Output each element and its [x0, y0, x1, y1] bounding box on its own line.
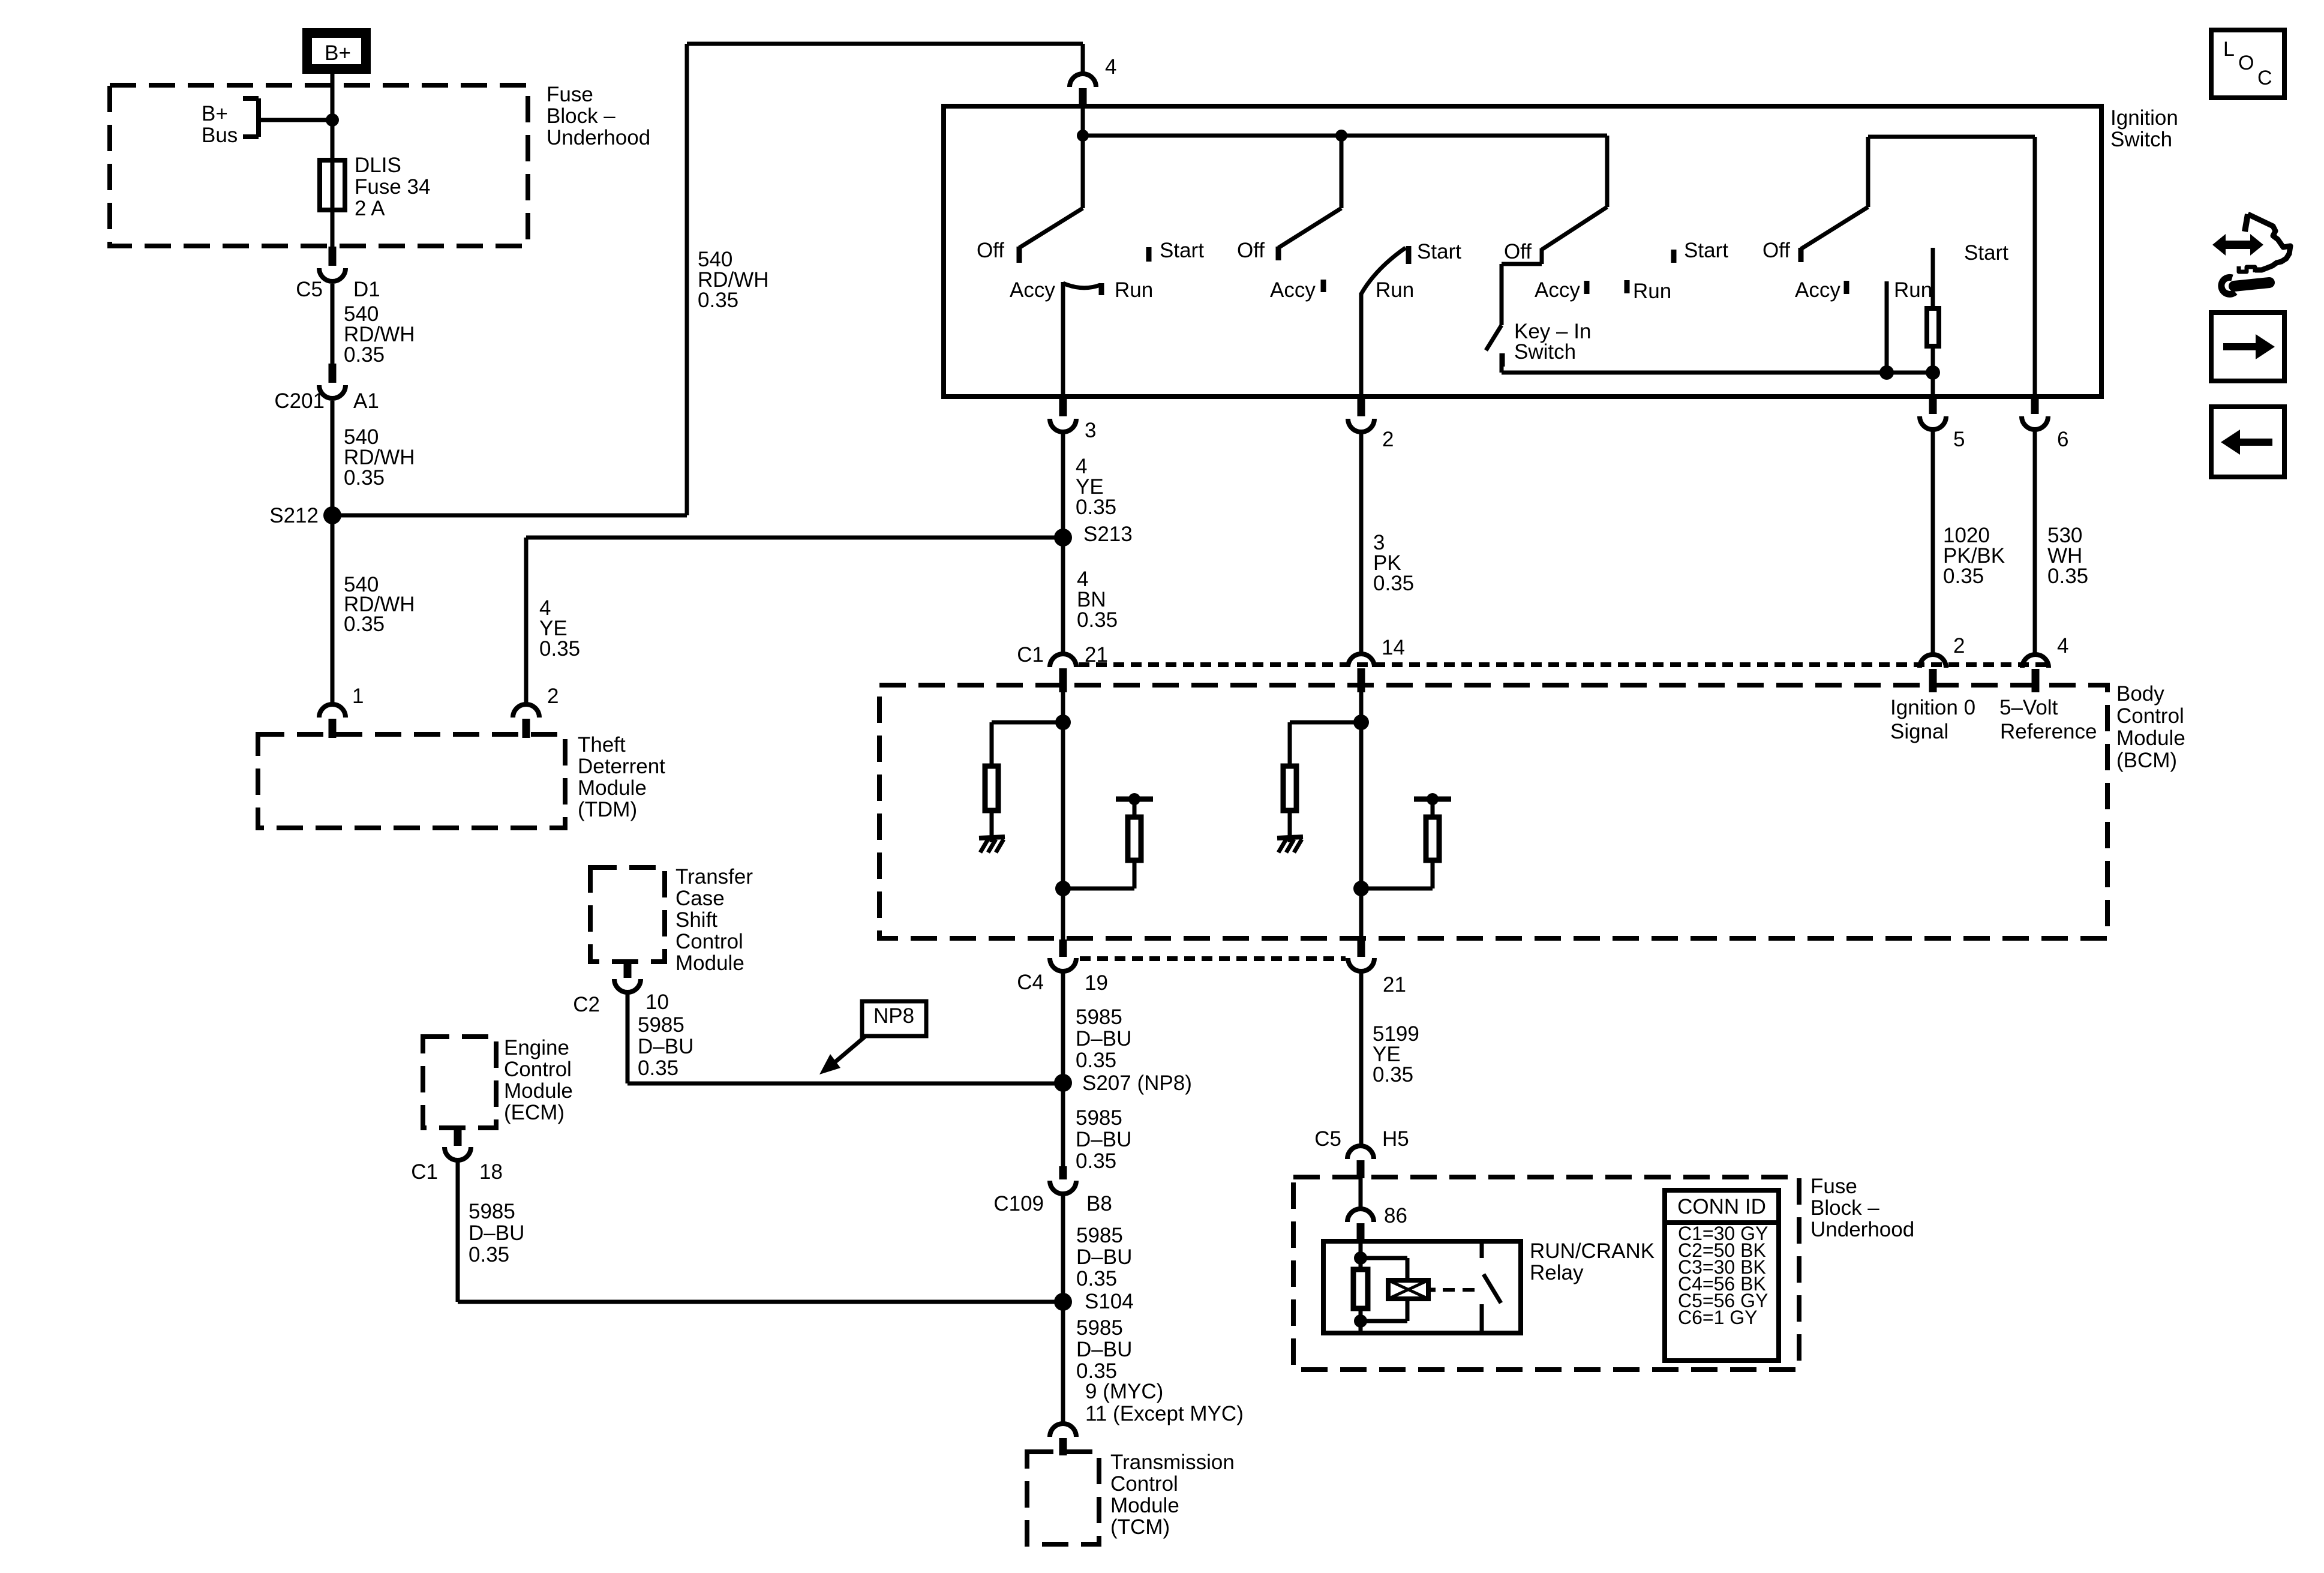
svg-text:B+: B+: [325, 41, 351, 65]
svg-text:Bus: Bus: [202, 124, 238, 147]
svg-text:Off: Off: [977, 239, 1004, 262]
svg-text:Switch: Switch: [1514, 340, 1576, 364]
svg-text:3: 3: [1085, 419, 1096, 442]
svg-text:Fuse: Fuse: [547, 83, 593, 106]
svg-text:Block –: Block –: [1810, 1196, 1879, 1220]
svg-text:S104: S104: [1085, 1290, 1134, 1313]
svg-text:0.35: 0.35: [698, 289, 738, 312]
svg-text:C: C: [2257, 67, 2272, 89]
svg-text:NP8: NP8: [873, 1004, 914, 1028]
svg-text:Control: Control: [504, 1058, 572, 1081]
svg-text:Off: Off: [1504, 240, 1532, 263]
svg-text:L: L: [2223, 38, 2235, 61]
svg-text:0.35: 0.35: [344, 466, 385, 490]
svg-text:1: 1: [352, 685, 364, 708]
svg-text:D–BU: D–BU: [638, 1035, 693, 1058]
svg-text:O: O: [2238, 52, 2254, 74]
svg-text:Fuse 34: Fuse 34: [355, 175, 430, 199]
svg-text:(TDM): (TDM): [578, 798, 637, 821]
svg-text:B+: B+: [202, 102, 228, 125]
svg-text:0.35: 0.35: [1076, 1049, 1116, 1072]
svg-text:10: 10: [645, 990, 669, 1014]
svg-text:5985: 5985: [1076, 1224, 1123, 1247]
svg-text:S213: S213: [1083, 523, 1133, 546]
svg-text:Control: Control: [675, 930, 743, 953]
svg-text:(BCM): (BCM): [2116, 749, 2177, 772]
svg-text:5985: 5985: [638, 1013, 684, 1037]
svg-text:Switch: Switch: [2110, 128, 2172, 151]
svg-text:9 (MYC): 9 (MYC): [1085, 1380, 1163, 1403]
svg-text:6: 6: [2057, 428, 2068, 451]
svg-text:S207 (NP8): S207 (NP8): [1082, 1071, 1192, 1095]
svg-text:A1: A1: [353, 389, 379, 413]
svg-text:CONN ID: CONN ID: [1677, 1195, 1766, 1218]
svg-text:RUN/CRANK: RUN/CRANK: [1530, 1239, 1655, 1263]
svg-text:Off: Off: [1237, 239, 1265, 262]
svg-text:Module: Module: [504, 1079, 573, 1103]
svg-text:D–BU: D–BU: [469, 1221, 524, 1245]
svg-text:11 (Except MYC): 11 (Except MYC): [1085, 1402, 1244, 1425]
svg-text:0.35: 0.35: [638, 1056, 678, 1080]
svg-text:C201: C201: [274, 389, 325, 413]
svg-text:Transmission: Transmission: [1110, 1451, 1235, 1474]
svg-text:0.35: 0.35: [1373, 572, 1414, 595]
svg-text:19: 19: [1085, 971, 1108, 995]
svg-text:0.35: 0.35: [344, 343, 385, 367]
svg-text:5–Volt: 5–Volt: [1999, 696, 2058, 719]
svg-text:0.35: 0.35: [1076, 1149, 1116, 1173]
svg-text:Accy: Accy: [1795, 278, 1840, 302]
svg-text:5985: 5985: [469, 1200, 515, 1223]
svg-text:Run: Run: [1376, 278, 1414, 302]
svg-text:2 A: 2 A: [355, 197, 385, 220]
svg-text:Start: Start: [1684, 239, 1728, 262]
svg-text:Module: Module: [2116, 727, 2185, 750]
svg-text:C109: C109: [993, 1192, 1044, 1215]
svg-text:Off: Off: [1762, 239, 1790, 262]
svg-text:(TCM): (TCM): [1110, 1515, 1170, 1539]
svg-text:0.35: 0.35: [1076, 1267, 1117, 1290]
svg-text:86: 86: [1384, 1204, 1407, 1227]
svg-text:C2: C2: [573, 993, 600, 1016]
svg-text:18: 18: [479, 1160, 503, 1184]
svg-text:Start: Start: [1964, 241, 2008, 265]
svg-text:2: 2: [547, 685, 559, 708]
svg-text:Module: Module: [1110, 1494, 1179, 1517]
svg-text:Underhood: Underhood: [547, 126, 650, 149]
svg-text:0.35: 0.35: [1076, 496, 1116, 519]
svg-text:4: 4: [1105, 55, 1116, 79]
svg-text:C4: C4: [1017, 971, 1044, 994]
svg-text:5: 5: [1953, 428, 1965, 451]
svg-text:Control: Control: [1110, 1472, 1178, 1496]
svg-text:2: 2: [1382, 428, 1394, 451]
svg-text:Accy: Accy: [1535, 278, 1580, 302]
svg-text:Deterrent: Deterrent: [578, 755, 665, 778]
svg-text:5985: 5985: [1076, 1005, 1122, 1029]
svg-text:Ignition: Ignition: [2110, 106, 2178, 130]
svg-text:Start: Start: [1417, 240, 1461, 263]
svg-text:Ignition 0: Ignition 0: [1890, 696, 1975, 719]
svg-text:(ECM): (ECM): [504, 1101, 565, 1124]
svg-text:B8: B8: [1086, 1192, 1112, 1215]
svg-text:0.35: 0.35: [1077, 608, 1118, 632]
svg-text:D–BU: D–BU: [1076, 1245, 1132, 1269]
svg-text:Signal: Signal: [1890, 720, 1948, 743]
svg-text:Block –: Block –: [547, 104, 615, 128]
svg-text:Accy: Accy: [1270, 278, 1316, 302]
svg-text:S212: S212: [269, 504, 319, 527]
svg-text:14: 14: [1382, 636, 1405, 659]
svg-text:21: 21: [1383, 973, 1406, 996]
svg-text:Module: Module: [578, 776, 647, 800]
svg-text:Accy: Accy: [1010, 278, 1055, 302]
svg-text:D–BU: D–BU: [1076, 1027, 1131, 1050]
svg-text:Relay: Relay: [1530, 1261, 1584, 1284]
svg-text:Engine: Engine: [504, 1036, 569, 1059]
svg-text:5985: 5985: [1076, 1106, 1122, 1130]
svg-text:Control: Control: [2116, 704, 2184, 728]
svg-text:Case: Case: [675, 887, 725, 910]
svg-text:D–BU: D–BU: [1076, 1338, 1132, 1361]
svg-text:H5: H5: [1382, 1127, 1409, 1151]
svg-text:0.35: 0.35: [1373, 1063, 1413, 1086]
svg-text:Shift: Shift: [675, 908, 717, 932]
svg-text:C5: C5: [1314, 1127, 1341, 1151]
svg-text:D–BU: D–BU: [1076, 1128, 1131, 1151]
svg-text:0.35: 0.35: [1943, 565, 1984, 588]
svg-text:5985: 5985: [1076, 1316, 1123, 1340]
svg-text:Module: Module: [675, 951, 744, 975]
svg-text:0.35: 0.35: [344, 613, 385, 636]
svg-text:Start: Start: [1160, 239, 1204, 262]
svg-text:0.35: 0.35: [2047, 565, 2088, 588]
svg-text:Theft: Theft: [578, 733, 626, 757]
svg-text:Transfer: Transfer: [675, 865, 753, 888]
svg-text:C6=1 GY: C6=1 GY: [1678, 1307, 1758, 1328]
svg-text:4: 4: [2057, 634, 2068, 658]
svg-text:Run: Run: [1894, 278, 1932, 302]
svg-text:Run: Run: [1633, 280, 1671, 303]
svg-text:Reference: Reference: [2000, 720, 2097, 743]
svg-text:Fuse: Fuse: [1810, 1175, 1857, 1198]
svg-text:C5: C5: [296, 278, 323, 301]
svg-text:Body: Body: [2116, 682, 2164, 706]
svg-text:2: 2: [1953, 634, 1965, 658]
svg-text:DLIS: DLIS: [355, 154, 401, 177]
svg-text:Underhood: Underhood: [1810, 1218, 1914, 1241]
svg-text:D1: D1: [353, 278, 380, 301]
svg-text:C1: C1: [1017, 643, 1044, 667]
svg-text:0.35: 0.35: [539, 637, 580, 661]
svg-text:C1: C1: [411, 1160, 438, 1184]
svg-text:0.35: 0.35: [469, 1243, 509, 1266]
svg-text:Run: Run: [1115, 278, 1153, 302]
